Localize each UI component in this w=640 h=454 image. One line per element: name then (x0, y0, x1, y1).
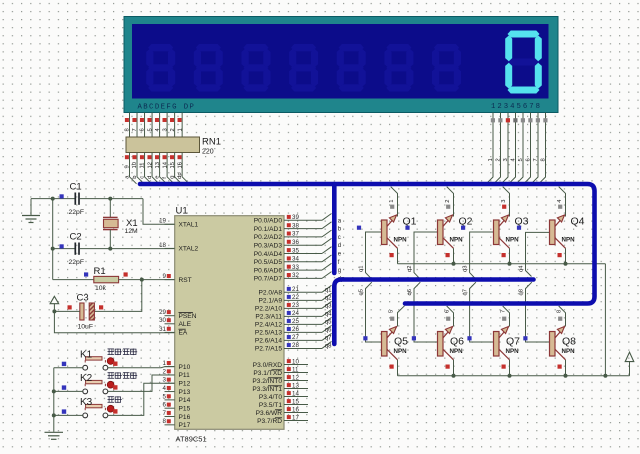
display digit pin 5 wire to bus (516, 113, 523, 184)
node right rail junction (603, 374, 607, 378)
svg-text:13: 13 (292, 382, 299, 389)
node collector Q3 (508, 262, 512, 266)
svg-text:28: 28 (292, 342, 299, 349)
Q2 collector state square red (446, 253, 450, 257)
svg-text:5: 5 (389, 310, 395, 313)
svg-text:31: 31 (159, 326, 166, 333)
svg-text:6: 6 (445, 310, 451, 313)
U1 right pin 15 P3.5/T1 (284, 404, 308, 406)
svg-text:9: 9 (125, 165, 131, 168)
svg-text:Q3: Q3 (515, 216, 529, 228)
U1 left pin 4 P13 (165, 391, 175, 393)
Q4 emitter wire from bus, net 4 (559, 187, 566, 217)
wire P0.5 to bus, net f (322, 255, 332, 262)
svg-text:7: 7 (533, 158, 539, 161)
K2 function label (108, 372, 115, 378)
RN1 bottom pin 13 wire to bus (160, 153, 167, 184)
capacitor C3 left plate (80, 303, 84, 320)
svg-text:16: 16 (177, 162, 183, 168)
svg-text:12M: 12M (125, 228, 139, 235)
display digit pin 5 state square (521, 118, 525, 122)
display digit pin 7 wire to bus (531, 113, 538, 184)
node collector Q2 (452, 262, 456, 266)
Q1 collector wire to rail (397, 248, 399, 263)
U1 right pin 32 P0.7/AD7 (284, 277, 322, 279)
svg-text:10uF: 10uF (78, 324, 94, 331)
display segment pin 5 state square (147, 118, 151, 122)
svg-text:5: 5 (147, 128, 153, 131)
svg-text:14: 14 (292, 390, 299, 397)
svg-text:q7: q7 (325, 335, 332, 341)
svg-text:6: 6 (525, 158, 531, 161)
U1 right pin 13 P3.3/INT1 (284, 388, 308, 390)
svg-text:3: 3 (162, 128, 168, 131)
svg-text:ALE: ALE (179, 321, 192, 328)
display segment pin 8 state square (125, 118, 129, 122)
svg-text:19: 19 (159, 218, 166, 225)
wire RST node down to C3 (95, 280, 142, 312)
wire node down to crystal X1 (109, 199, 111, 218)
Q8 emitter arrowhead (557, 327, 564, 334)
bus P2 branch with middle horizontal (334, 280, 533, 345)
wire P2.5 to bus, net q6 (322, 325, 332, 332)
node collector Q4 (564, 262, 568, 266)
K3 right terminal (103, 413, 108, 418)
U1 right pin 35 P0.4/AD4 (284, 253, 322, 255)
svg-text:NPN: NPN (506, 348, 520, 355)
Q6 collector wire to rail (453, 360, 455, 376)
Q7 emitter arrowhead (501, 327, 508, 334)
svg-text:5: 5 (518, 158, 524, 161)
svg-text:q3: q3 (325, 303, 332, 309)
Q2 collector line (443, 238, 454, 249)
svg-text:P12: P12 (179, 381, 191, 388)
U1 right pin 16 P3.6/WR (284, 412, 308, 414)
wire P2.1 to bus, net q2 (322, 293, 332, 300)
RN1 bottom pin 15 wire to bus (175, 153, 182, 184)
push button K2 actuator (86, 380, 102, 383)
svg-text:C1: C1 (70, 182, 82, 193)
svg-text:NPN: NPN (394, 348, 408, 355)
K3 left terminal (83, 413, 88, 418)
push button K3 actuator (86, 404, 102, 407)
display digit pin 7 state square (536, 118, 540, 122)
svg-text:16: 16 (292, 406, 299, 413)
svg-text:8: 8 (163, 418, 167, 425)
svg-text:P2.2/A10: P2.2/A10 (255, 306, 282, 313)
Q5 collector wire to rail (397, 360, 399, 376)
display digit pin 2 state square (498, 118, 502, 122)
C1 state square blue (60, 194, 64, 198)
display segment pin 7 wire (136, 113, 138, 138)
U1 right pin 10 P3.0/RXD (284, 364, 308, 366)
Q3 emitter line (499, 216, 509, 227)
wire P0.7 to bus, net dp (322, 272, 332, 279)
wire C1 to X1 node (80, 198, 143, 200)
svg-text:P0.4/AD4: P0.4/AD4 (254, 251, 283, 258)
svg-text:q3: q3 (463, 266, 469, 272)
Q8 collector line (555, 349, 566, 360)
R1 state square red (124, 272, 128, 276)
U1 left pin 7 P16 (165, 416, 175, 418)
svg-text:7: 7 (501, 310, 507, 313)
U1 left pin 8 P17 (165, 424, 175, 426)
svg-text:P14: P14 (179, 397, 191, 404)
Q7 emitter wire from bus, net 7 (503, 306, 510, 327)
Q4 emitter line (555, 216, 565, 227)
svg-text:K3: K3 (80, 397, 93, 408)
svg-text:P3.1/TXD: P3.1/TXD (253, 370, 282, 377)
button ground rail (53, 368, 55, 432)
svg-text:d: d (338, 243, 341, 249)
svg-text:18: 18 (159, 242, 166, 249)
svg-text:P10: P10 (179, 364, 191, 371)
svg-text:C2: C2 (70, 232, 82, 243)
svg-text:P3.2/INT0: P3.2/INT0 (252, 378, 282, 385)
U1 left pin 1 P10 (165, 366, 175, 368)
svg-text:NPN: NPN (394, 237, 408, 244)
svg-text:q2: q2 (325, 295, 332, 301)
svg-text:P0.2/AD2: P0.2/AD2 (254, 234, 283, 241)
svg-text:12: 12 (147, 162, 153, 168)
Q8 base wire from bus (526, 282, 550, 342)
C2 state square blue (60, 244, 64, 248)
collector rail Q1-Q4 (398, 263, 606, 265)
svg-text:P3.5/T1: P3.5/T1 (259, 402, 282, 409)
RN1 bottom pin 12 state square (147, 155, 151, 159)
svg-text:XTAL2: XTAL2 (179, 246, 199, 253)
svg-text:q6: q6 (325, 327, 332, 333)
transistor Q8 base bar (550, 332, 556, 357)
svg-text:10k: 10k (95, 285, 107, 292)
U1 right pin 12 P3.2/INT0 (284, 380, 308, 382)
U1 left pin 9 RST (165, 279, 175, 281)
svg-text:d: d (147, 176, 153, 179)
display segment pin 2 state square (170, 118, 174, 122)
RN1 bottom pin 14 wire to bus (167, 153, 174, 184)
transistor Q4 base bar (550, 220, 556, 245)
svg-text:b: b (132, 176, 138, 179)
svg-text:24: 24 (292, 310, 299, 317)
svg-text:P2.1/A9: P2.1/A9 (259, 298, 283, 305)
RN1 bottom pin 16 state square (178, 155, 182, 159)
svg-text:2: 2 (163, 368, 167, 375)
wire C2 to XTAL2 pin (80, 248, 175, 250)
Q6 emitter wire from bus, net 6 (447, 306, 454, 327)
K2 state square red (113, 385, 117, 389)
collector rail Q5-Q8 (398, 375, 630, 377)
Q5 base wire from bus (366, 282, 382, 342)
capacitor C1 plates (74, 193, 76, 205)
Q8 emitter line (555, 327, 565, 338)
Q6 base wire from bus (414, 282, 438, 342)
node collector Q6 (452, 374, 456, 378)
svg-text:P2.4/A12: P2.4/A12 (255, 322, 282, 329)
svg-text:P2.5/A13: P2.5/A13 (255, 330, 282, 337)
svg-text:2: 2 (445, 200, 451, 203)
svg-text:P0.0/AD0: P0.0/AD0 (254, 218, 283, 225)
svg-text:15: 15 (292, 398, 299, 405)
U1 right pin 25 P2.4/A12 (284, 323, 322, 325)
display digit pin 6 state square (528, 118, 532, 122)
U1 right pin 24 P2.3/A11 (284, 315, 322, 317)
transistor Q6 base bar (438, 332, 444, 357)
display digit 8 showing lit 0 (508, 31, 540, 38)
svg-text:220: 220 (202, 149, 214, 156)
svg-text:Q8: Q8 (562, 336, 576, 348)
svg-text:10: 10 (292, 358, 299, 365)
U1 right pin 17 P3.7/RD (284, 420, 308, 422)
transistor Q1 base bar (382, 220, 388, 245)
svg-text:33: 33 (292, 264, 299, 271)
Q3 emitter arrowhead (501, 215, 508, 222)
power arrow symbol VCC right (629, 362, 631, 376)
Q2 base wire from bus (414, 232, 438, 279)
svg-text:Q4: Q4 (571, 216, 585, 228)
wire P0.0 to bus, net a (322, 214, 332, 221)
display digit 3 (off segments) (243, 44, 268, 51)
U1 left pin 19 XTAL1 (165, 223, 175, 225)
Q2 emitter wire from bus, net 2 (447, 187, 454, 217)
wire collector rail down right side (604, 264, 606, 376)
wire rail to C2 (53, 248, 75, 250)
crystal X1 (103, 216, 118, 218)
U1 right pin 39 P0.0/AD0 (284, 219, 322, 221)
display segment pin 4 wire (159, 113, 161, 138)
display segment pin 1 state square (178, 118, 182, 122)
svg-text:q1: q1 (325, 287, 332, 293)
C3 state square red right (99, 305, 103, 309)
resistor R1 body (94, 276, 119, 282)
display digit pin 8 wire to bus (539, 113, 546, 184)
display segment pin 6 state square (140, 118, 144, 122)
svg-text:P3.4/T0: P3.4/T0 (259, 394, 282, 401)
svg-text:11: 11 (140, 162, 146, 168)
svg-text:R1: R1 (94, 266, 106, 277)
svg-text:1: 1 (389, 200, 395, 203)
node K3 rail (52, 413, 56, 417)
svg-text:P16: P16 (179, 414, 191, 421)
svg-text:dp: dp (177, 172, 183, 178)
Q5 emitter arrowhead (389, 327, 396, 334)
svg-text:Q5: Q5 (394, 336, 408, 348)
Q1 collector state square red (390, 253, 394, 257)
wire P2.4 to bus, net q5 (322, 317, 332, 324)
U1 left pin 6 P15 (165, 407, 175, 409)
svg-text:39: 39 (292, 214, 299, 221)
svg-text:g: g (338, 268, 341, 274)
bus vertical P0 branch (332, 184, 337, 273)
wire C3 to power node (54, 310, 79, 312)
svg-text:P0.7/AD7: P0.7/AD7 (254, 276, 283, 283)
svg-text:RN1: RN1 (202, 137, 221, 148)
svg-text:8: 8 (540, 158, 546, 161)
node at C2 rail (51, 247, 55, 251)
svg-text:30: 30 (159, 317, 166, 324)
svg-text:6: 6 (163, 402, 167, 409)
wire P2.6 to bus, net q7 (322, 333, 332, 340)
ground symbol near C1 (30, 199, 32, 215)
Q5 collector line (387, 349, 398, 360)
Q7 emitter state square gray (502, 317, 506, 321)
svg-text:AT89C51: AT89C51 (176, 435, 207, 444)
Q2 collector wire to rail (453, 248, 455, 263)
svg-text:12345678: 12345678 (491, 103, 542, 111)
wire P0.3 to bus, net d (322, 238, 332, 245)
svg-text:2: 2 (170, 128, 176, 131)
svg-text:22pF: 22pF (69, 209, 85, 216)
svg-text:U1: U1 (176, 206, 188, 217)
svg-text:q8: q8 (325, 343, 332, 349)
svg-text:P0.6/AD6: P0.6/AD6 (254, 267, 283, 274)
Q3 base wire from bus (470, 232, 494, 279)
node RST/C3 (140, 278, 144, 282)
U1 right pin 38 P0.1/AD1 (284, 228, 322, 230)
svg-text:c: c (140, 176, 146, 179)
svg-text:7: 7 (132, 128, 138, 131)
display segment pin 2 wire (174, 113, 176, 138)
svg-text:q2: q2 (407, 266, 413, 272)
svg-text:2: 2 (495, 158, 501, 161)
Q4 collector state square red (558, 253, 562, 257)
wire P0.4 to bus, net e (322, 247, 332, 254)
K1 function label (108, 349, 115, 355)
display segment pin 1 wire (181, 113, 183, 138)
U1 left pin 31 EA (165, 331, 175, 333)
svg-text:3: 3 (503, 158, 509, 161)
Q5 base state square blue (363, 336, 367, 340)
svg-text:P17: P17 (179, 422, 191, 429)
node C2/X1 (108, 247, 112, 251)
wire P0.1 to bus, net b (322, 222, 332, 229)
svg-text:1: 1 (177, 128, 183, 131)
U1 left pin 18 XTAL2 (165, 247, 175, 249)
Q1 base state square blue (357, 226, 361, 230)
U1 right pin 26 P2.5/A13 (284, 331, 322, 333)
U1 right pin 14 P3.4/T0 (284, 396, 308, 398)
svg-text:P3.6/WR: P3.6/WR (256, 410, 283, 417)
svg-text:27: 27 (292, 334, 299, 341)
RN1 bottom pin 13 state square (155, 155, 159, 159)
svg-text:q4: q4 (519, 265, 525, 272)
Q2 emitter arrowhead (445, 215, 452, 222)
node C1/X1/XTAL1 (108, 197, 112, 201)
svg-text:e: e (155, 176, 161, 179)
RN1 bottom pin 16 wire to bus (182, 153, 189, 184)
Q7 collector line (499, 349, 510, 360)
Q4 collector wire to rail (565, 248, 567, 263)
svg-text:3: 3 (501, 200, 507, 203)
Q2 emitter state square (446, 205, 450, 209)
display segment pin 8 wire (129, 113, 131, 138)
svg-text:38: 38 (292, 222, 299, 229)
display segment pin 7 state square (132, 118, 136, 122)
svg-text:5: 5 (163, 393, 167, 400)
Q8 emitter wire from bus, net 8 (559, 306, 566, 327)
svg-text:NPN: NPN (562, 348, 576, 355)
Q1 base wire from bus (366, 232, 382, 279)
wire P0.2 to bus, net c (322, 230, 332, 237)
svg-text:P2.6/A14: P2.6/A14 (255, 338, 282, 345)
svg-text:RST: RST (179, 277, 192, 284)
wire K3 right to P12 (108, 383, 175, 415)
svg-text:ABCDEFG DP: ABCDEFG DP (138, 103, 196, 111)
svg-text:26: 26 (292, 326, 299, 333)
svg-text:8: 8 (125, 128, 131, 131)
svg-text:NPN: NPN (562, 237, 576, 244)
U1 right pin 21 P2.0/A8 (284, 291, 322, 293)
svg-text:21: 21 (292, 286, 299, 293)
display digit pin 6 wire to bus (524, 113, 531, 184)
U1 right pin 37 P0.2/AD2 (284, 236, 322, 238)
K3 red actuation dot (107, 405, 114, 412)
wire K1 right to P10 (108, 367, 175, 368)
Q6 emitter arrowhead (445, 327, 452, 334)
svg-text:P0.5/AD5: P0.5/AD5 (254, 259, 283, 266)
Q7 base state square blue (467, 336, 471, 340)
svg-text:q6: q6 (407, 289, 413, 295)
svg-text:P3.3/INT1: P3.3/INT1 (252, 386, 282, 393)
svg-text:q4: q4 (325, 311, 332, 317)
Q8 collector wire to rail (565, 360, 567, 376)
wire P2.0 to bus, net q1 (322, 285, 332, 292)
svg-text:c: c (338, 235, 341, 241)
display digit pin 4 state square (513, 118, 517, 122)
Q2 base state square blue (405, 226, 409, 230)
svg-text:q8: q8 (519, 289, 525, 295)
Q3 emitter state square (502, 205, 506, 209)
wire to XTAL1 pin (143, 199, 175, 225)
display digit pin 2 wire to bus (494, 113, 501, 184)
Q1 collector line (387, 238, 398, 249)
display digit 4 (off segments) (291, 44, 316, 51)
Q6 base state square blue (412, 336, 416, 340)
wire rail to R1 (53, 279, 94, 281)
RN1 bottom pin 11 wire to bus (145, 153, 152, 184)
wire rail to C1 (53, 198, 75, 200)
transistor Q2 base bar (438, 220, 444, 245)
RN1 bottom pin 12 wire to bus (152, 153, 159, 184)
svg-text:NPN: NPN (506, 237, 520, 244)
resistor network RN1 body (126, 137, 200, 153)
svg-text:12: 12 (292, 374, 299, 381)
svg-text:P2.0/A8: P2.0/A8 (259, 290, 283, 297)
svg-text:Q6: Q6 (450, 336, 464, 348)
Q8 emitter state square gray (558, 317, 562, 321)
wire K2 left to rail (54, 390, 83, 392)
svg-text:P11: P11 (179, 372, 191, 379)
RN1 bottom pin 14 state square (163, 155, 167, 159)
wire K2 right to P11 (108, 375, 175, 391)
Q7 emitter line (499, 327, 509, 338)
K1 state square red (113, 362, 117, 366)
Q4 base wire from bus (526, 232, 550, 276)
K3 function label (108, 396, 115, 402)
display digit pin 8 state square (543, 118, 547, 122)
Q1 emitter wire from bus, net 1 (391, 187, 398, 217)
K2 right terminal (103, 389, 108, 394)
Q7 collector wire to rail (509, 360, 511, 376)
svg-text:P15: P15 (179, 406, 191, 413)
svg-text:XTAL1: XTAL1 (179, 222, 199, 229)
Q6 emitter state square gray (446, 317, 450, 321)
svg-text:15: 15 (170, 162, 176, 168)
8-digit 7-segment display module DS1 (124, 17, 558, 113)
ground symbol below buttons (45, 431, 64, 433)
display digit pin 3 state square (506, 118, 510, 122)
svg-text:22: 22 (292, 294, 299, 301)
svg-text:K1: K1 (80, 350, 93, 361)
